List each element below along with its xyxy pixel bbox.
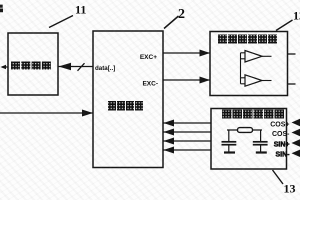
op-amp A2 [245, 75, 262, 86]
text 功率放大单元 [218, 35, 277, 44]
amp output stub bottom [288, 83, 296, 85]
label 12 leader [276, 20, 293, 31]
low-pass filter box 13 [211, 109, 287, 170]
filter wires to resolver (4) [163, 122, 211, 124]
text 总线驱动 (kanji blocks) [11, 62, 51, 70]
power amplifier box 12 [210, 32, 288, 96]
right drop wire [260, 130, 262, 141]
left drop wire [228, 130, 230, 141]
filter internal: top wire [227, 129, 262, 131]
input arrow SIN- [292, 150, 301, 157]
internal input wires [241, 52, 246, 54]
input wire left [0, 112, 93, 114]
amp output stub top [288, 53, 296, 55]
label 11 leader [49, 16, 73, 28]
text 低通滤波单元 [222, 110, 284, 119]
arrowhead into resolver [82, 110, 93, 117]
edge artifact glyph top-left [0, 5, 3, 13]
text 解算单元 [108, 101, 143, 111]
EXC+ wire [163, 52, 210, 54]
EXC- wire [163, 79, 210, 81]
input arrow COS- [292, 129, 301, 136]
op-amp outputs [262, 55, 272, 57]
input arrow SIN+ [292, 139, 301, 146]
ground C1 [224, 151, 235, 153]
capacitor C1 [222, 141, 237, 143]
left output arrow [2, 66, 8, 68]
bus driver box 11 [8, 33, 58, 95]
bus slash tick [78, 63, 85, 71]
arrowhead into bus driver [59, 63, 72, 71]
op-amp A1 [245, 51, 262, 63]
resolver unit box 2 [93, 31, 163, 168]
resistor R [238, 128, 253, 133]
input arrow COS+ [292, 119, 301, 126]
bus wire between 11 and 2 [58, 66, 93, 68]
label 2 leader [164, 16, 179, 29]
label 13 leader [273, 170, 284, 184]
capacitor C2 [253, 141, 268, 143]
ground C2 [256, 151, 267, 153]
